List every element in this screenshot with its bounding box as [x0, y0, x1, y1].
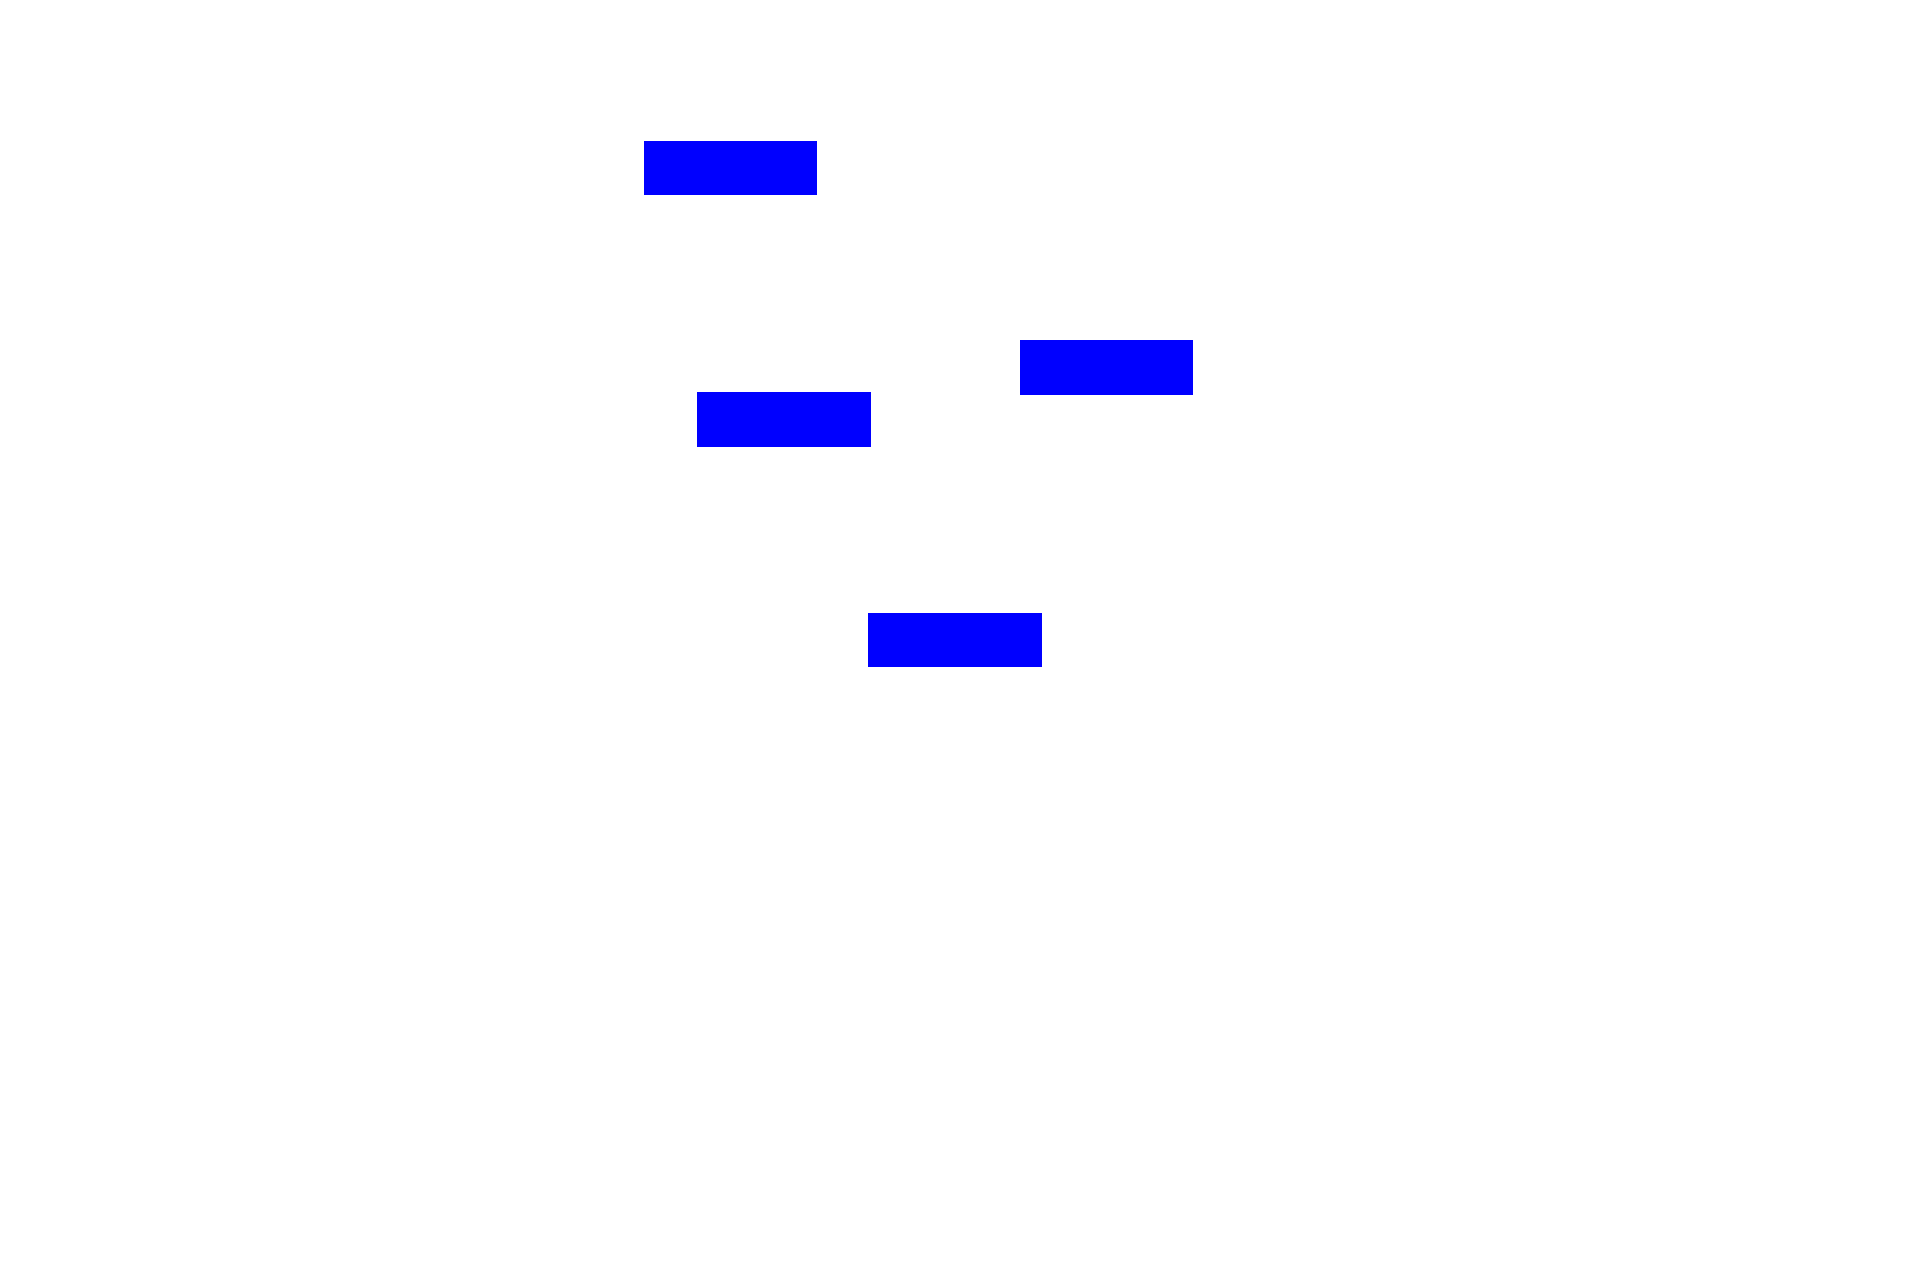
blue rectangle box2 (upper right)	[1020, 340, 1193, 395]
blue rectangle box3 (middle left)	[697, 392, 871, 447]
blue rectangle box4 (bottom center)	[868, 613, 1042, 667]
blue rectangle box1 (top)	[644, 141, 817, 195]
